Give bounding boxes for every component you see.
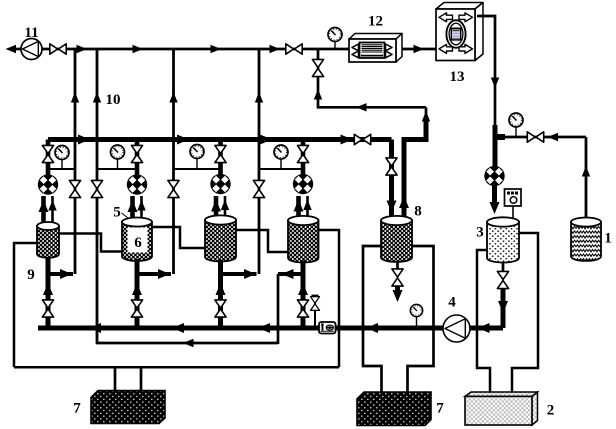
cascade B to C	[152, 227, 205, 248]
valve under vessel B	[131, 300, 142, 317]
vessel A	[37, 222, 59, 258]
svg-text:1: 1	[604, 231, 612, 247]
valve on riser C	[253, 180, 264, 197]
unit D drop line	[301, 140, 306, 176]
MAIN-TOP-LINE	[6, 45, 437, 53]
riser C x=259	[255, 49, 263, 274]
vessel 3 bottom drain	[502, 263, 505, 273]
return line y=107	[314, 49, 426, 112]
valve after pump 11	[50, 44, 66, 54]
vessel B product branch	[137, 269, 171, 279]
box 7 right	[357, 392, 444, 426]
connector B y=169	[97, 168, 137, 170]
vessel 3 right loop to tank 2	[512, 233, 538, 396]
thick manifold y=139	[48, 135, 392, 145]
4-way valve on vessel 3 feed	[484, 166, 504, 186]
drain arrow to pump line	[498, 289, 508, 329]
vessel B (5/6)	[113, 205, 152, 261]
pump 11	[21, 25, 42, 60]
vessel C bottom line	[216, 260, 226, 329]
flow meter on pump line	[319, 322, 336, 334]
4-way valve C	[210, 174, 230, 194]
valve on riser B	[168, 180, 179, 197]
box 7L stub 2	[140, 367, 143, 391]
unit C drop line	[218, 140, 223, 176]
svg-text:5: 5	[113, 205, 121, 221]
collect line y=367	[14, 366, 339, 369]
valve under vessel 3	[497, 271, 508, 288]
twin arrows C	[211, 196, 229, 222]
svg-text:3: 3	[476, 225, 484, 241]
valve unit D	[297, 145, 308, 162]
valve on vessel 8 feed	[386, 158, 397, 175]
unit A drop line	[46, 140, 51, 176]
valve on riser x=97	[91, 180, 102, 197]
valve on return riser x=318	[312, 59, 323, 76]
vessel 8 return riser	[399, 107, 430, 218]
twin arrows D	[294, 196, 312, 223]
vessel 3 left loop to tank 2	[477, 250, 490, 396]
valve unit C	[215, 145, 226, 162]
vessel B bottom line	[132, 259, 142, 328]
svg-text:13: 13	[450, 69, 465, 85]
valve under vessel A	[42, 300, 53, 317]
svg-text:4: 4	[448, 295, 456, 311]
svg-text:12: 12	[368, 14, 383, 30]
gauge B	[111, 145, 125, 169]
pump 4	[443, 295, 470, 343]
cascade D to drain	[319, 230, 340, 367]
blower 13	[436, 3, 483, 86]
valve on feed branch	[527, 132, 543, 142]
gauge on feed branch	[509, 113, 523, 136]
vessel C	[205, 215, 236, 261]
junction fitting	[493, 125, 505, 167]
valve on manifold	[354, 134, 370, 144]
4-way valve D	[293, 174, 313, 194]
feed arrow into vessel 3	[490, 186, 500, 214]
4-way valve A	[38, 174, 58, 194]
relief stub valve	[311, 296, 320, 329]
vessel A left port line	[14, 243, 37, 367]
riser B x=173.5	[169, 49, 177, 274]
valve under vessel C	[215, 300, 226, 317]
cascade C to D	[236, 230, 288, 252]
return line y=343	[96, 339, 278, 347]
connector D y=169	[259, 168, 303, 170]
gauge on top line	[328, 28, 342, 49]
vessel C product branch	[221, 269, 257, 279]
vessel 8 left side loop to box 7R	[363, 246, 382, 392]
riser return x=97	[93, 49, 121, 344]
gauge on pump line	[410, 304, 422, 327]
svg-text:7: 7	[73, 401, 81, 417]
vessel D product branch (left)	[278, 269, 303, 279]
valve unit A	[42, 145, 53, 162]
cascade A to B	[59, 234, 122, 252]
valve unit B	[131, 145, 142, 162]
vessel D	[288, 216, 319, 263]
vessel D bottom line	[298, 261, 308, 329]
vessel D return drop x=278	[277, 274, 280, 344]
svg-text:7: 7	[436, 401, 444, 417]
vessel 3	[476, 217, 519, 262]
twin arrows A	[39, 196, 57, 228]
heat exchanger 12	[349, 14, 402, 63]
twin arrows B	[128, 196, 146, 224]
box 7L stub 1	[114, 367, 117, 391]
box 7 left	[73, 391, 165, 424]
pump suction line y=328	[38, 323, 503, 333]
connector A y=169	[48, 168, 75, 170]
line box13 to down-riser	[477, 16, 499, 129]
valve under vessel D	[297, 300, 308, 317]
vessel A bottom line	[43, 257, 53, 328]
vessel A product branch	[27, 267, 73, 283]
controller on vessel 3	[505, 189, 522, 219]
feed branch line	[505, 133, 586, 141]
riser A x=75	[71, 49, 79, 274]
vessel 8 right side loop to box 7R	[408, 246, 434, 392]
gauge C	[190, 145, 204, 170]
svg-text:8: 8	[414, 204, 422, 220]
vessel 8 feed downcomer	[387, 140, 397, 219]
svg-text:6: 6	[134, 235, 142, 251]
gauge A	[55, 146, 69, 170]
svg-text:9: 9	[27, 267, 35, 283]
connector C y=169	[174, 168, 221, 170]
valve on top line	[286, 44, 302, 54]
gauge D	[274, 145, 288, 169]
4-way valve B	[127, 174, 147, 194]
svg-text:11: 11	[24, 25, 38, 41]
vessel 8 bottom drain	[392, 262, 403, 302]
svg-text:10: 10	[106, 92, 121, 108]
vessel 1 riser	[582, 137, 590, 218]
unit B drop line	[135, 140, 140, 176]
vessel 1	[571, 218, 612, 261]
valve on riser A	[69, 180, 80, 197]
vessel 8	[381, 204, 422, 262]
svg-text:2: 2	[547, 403, 555, 419]
tank 2	[465, 392, 554, 425]
